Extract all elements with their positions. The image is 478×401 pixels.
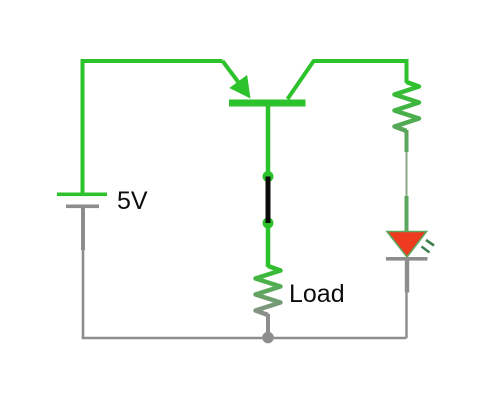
battery V1 negative lead [81,208,85,250]
wire: top rail left segment (battery + to transistor emitter) [83,61,223,194]
transistor Q1 (PNP) emitter diagonal [223,61,243,87]
wire: base bar to switch [266,105,271,177]
label: 5V [117,187,148,216]
wire: bottom ground rail [83,208,407,338]
LED D1 anode lead [405,196,409,232]
battery V1 negative plate [66,205,99,209]
resistor R2 (Load) [256,266,281,315]
switch S1 bottom node [263,218,274,229]
transistor Q1 collector diagonal [288,61,315,100]
R1 bottom lead [405,130,409,152]
R2 bottom lead [266,314,270,336]
wire: top rail right segment (collector to R1) [313,61,407,83]
LED D1 cathode bar [386,257,428,261]
LED D1 light rays [422,240,435,253]
wire: switch to load resistor [266,223,271,267]
wire: LED cathode to bottom rail [405,293,407,339]
LED D1 triangle [387,232,427,258]
junction node (ground rail) [262,332,274,344]
resistor R1 (right, collector resistor) [395,82,420,131]
transistor Q1 base bar [229,100,306,107]
wire: R1 to LED anode (thin mid-voltage wire) [406,152,408,198]
switch S1 closed lever [266,177,271,224]
battery V1 positive plate [57,193,107,197]
switch S1 top node [263,171,274,182]
label: Load [289,280,345,309]
LED D1 cathode lead [405,260,409,293]
transistor Q1 emitter arrowhead [229,75,250,99]
